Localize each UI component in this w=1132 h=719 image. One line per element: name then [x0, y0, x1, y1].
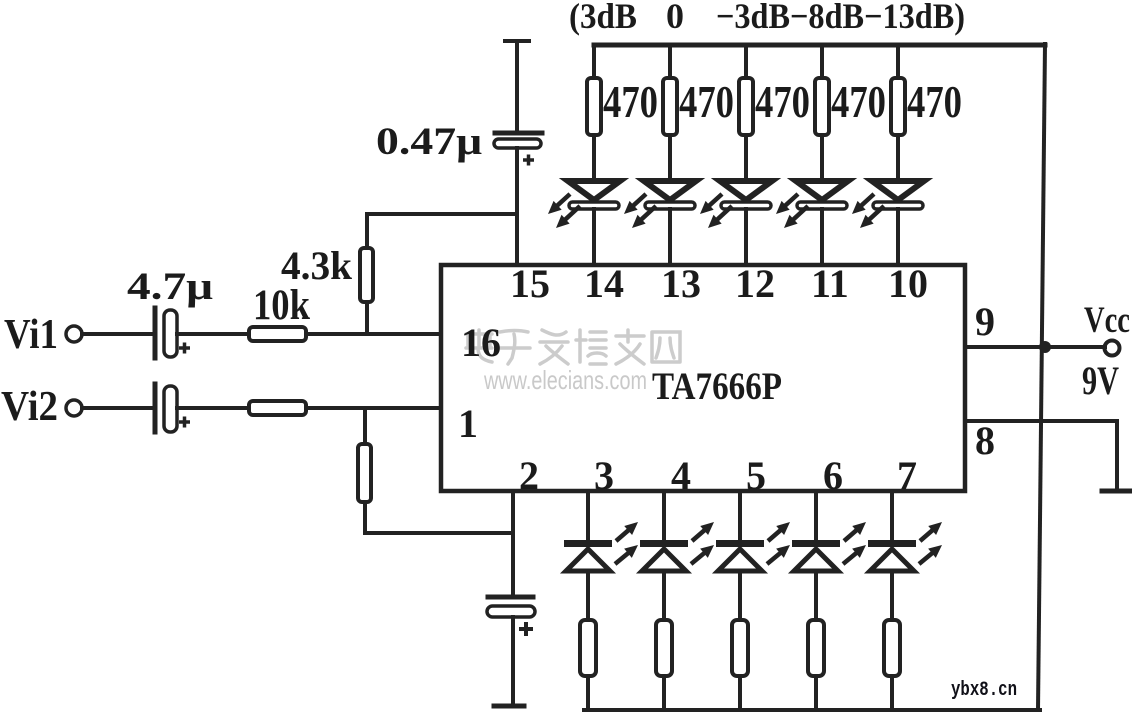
svg-text:5: 5 [746, 453, 766, 498]
svg-text:8: 8 [975, 418, 995, 463]
svg-text:1: 1 [458, 401, 478, 446]
svg-text:470: 470 [679, 76, 734, 127]
svg-text:470: 470 [831, 76, 886, 127]
svg-text:−3dB−8dB−13dB): −3dB−8dB−13dB) [716, 0, 965, 36]
svg-text:2: 2 [519, 453, 539, 498]
svg-text:3: 3 [594, 453, 614, 498]
svg-text:16: 16 [461, 320, 501, 365]
svg-text:13: 13 [661, 261, 701, 306]
svg-text:10k: 10k [253, 282, 310, 329]
svg-text:470: 470 [755, 76, 810, 127]
svg-text:(3dB: (3dB [569, 0, 637, 36]
svg-text:TA7666P: TA7666P [652, 365, 782, 408]
svg-text:11: 11 [811, 261, 849, 306]
svg-text:4: 4 [671, 453, 691, 498]
svg-text:4.7μ: 4.7μ [127, 265, 213, 308]
svg-text:7: 7 [897, 453, 917, 498]
svg-text:10: 10 [888, 261, 928, 306]
svg-text:12: 12 [735, 261, 775, 306]
svg-text:470: 470 [907, 76, 962, 127]
svg-text:Vi2: Vi2 [1, 384, 58, 430]
svg-text:www.elecians.com: www.elecians.com [483, 365, 647, 395]
svg-text:Vcc: Vcc [1084, 300, 1130, 341]
svg-text:9V: 9V [1082, 358, 1119, 403]
svg-text:ybx8.cn: ybx8.cn [951, 679, 1017, 702]
svg-text:6: 6 [823, 453, 843, 498]
svg-text:14: 14 [584, 261, 624, 306]
svg-text:0.47μ: 0.47μ [376, 120, 482, 163]
svg-text:Vi1: Vi1 [4, 312, 58, 358]
svg-text:470: 470 [603, 76, 658, 127]
svg-text:9: 9 [975, 299, 995, 344]
svg-text:0: 0 [666, 0, 684, 36]
svg-text:15: 15 [510, 261, 550, 306]
